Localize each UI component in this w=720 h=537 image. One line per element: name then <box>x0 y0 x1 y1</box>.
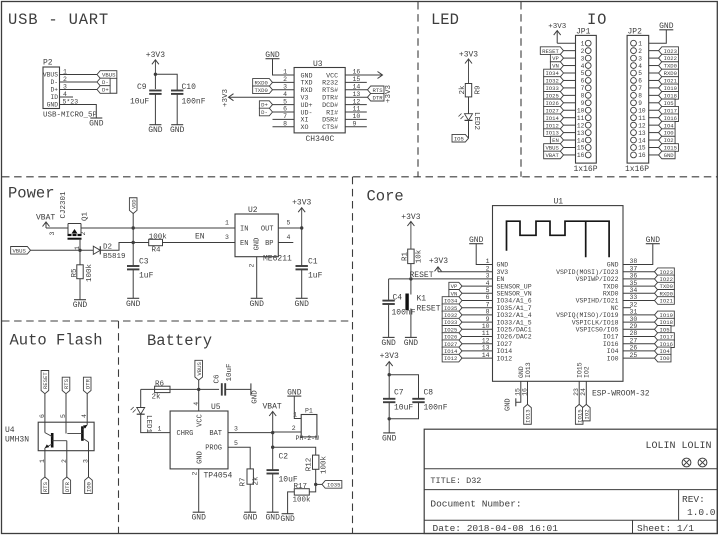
svg-text:IO5: IO5 <box>454 135 464 142</box>
wire U1 right <box>623 300 655 302</box>
wire VDD node <box>132 214 134 243</box>
svg-text:Q1: Q1 <box>82 211 90 221</box>
svg-text:+3V3: +3V3 <box>146 51 165 60</box>
svg-text:11: 11 <box>638 115 646 122</box>
svg-text:IO34: IO34 <box>545 70 559 77</box>
svg-text:Power: Power <box>8 185 55 203</box>
svg-text:IO32/A1_4: IO32/A1_4 <box>497 312 532 319</box>
svg-text:REV:: REV: <box>682 494 705 505</box>
resistor R1 10k <box>408 249 414 264</box>
svg-text:2: 2 <box>80 231 87 235</box>
net tag IO18 at U1 <box>655 318 675 326</box>
svg-text:+3V3: +3V3 <box>429 257 448 266</box>
wire JP2 <box>649 139 659 141</box>
svg-text:Auto Flash: Auto Flash <box>10 332 103 350</box>
wire P2 pin4 ID stub <box>60 96 74 98</box>
net tag RXD0 at JP2 <box>659 69 679 77</box>
wire U4 pin5 <box>65 394 67 434</box>
section divider USB-UART/LED <box>417 2 419 177</box>
wire C6 to GND <box>225 388 251 390</box>
net tag IO22 at JP2 <box>659 54 679 62</box>
svg-text:IO4: IO4 <box>664 122 675 129</box>
wire U3 right stub <box>345 126 367 128</box>
svg-text:GND: GND <box>252 390 260 404</box>
resistor R6 2k <box>155 386 170 392</box>
net tag IO33 at U1 <box>442 318 462 326</box>
wire JP2 <box>649 72 659 74</box>
wire JP1 <box>564 87 576 89</box>
wire U1 right <box>623 328 655 330</box>
diode D2 B5819 <box>93 246 100 254</box>
svg-text:IO35/A1_7: IO35/A1_7 <box>497 305 532 312</box>
wire VBUS to D2 <box>31 249 94 251</box>
svg-text:IO21: IO21 <box>660 298 674 305</box>
net tag IO2 at U1 pin24 <box>583 404 591 420</box>
wires U4 bottom pins <box>44 451 46 477</box>
svg-text:D+: D+ <box>102 87 109 94</box>
net tag IO34 at JP1 <box>544 69 564 77</box>
svg-text:TP4054: TP4054 <box>204 472 233 481</box>
net tag IO35 <box>316 483 322 485</box>
svg-text:+3V3: +3V3 <box>385 84 393 103</box>
svg-text:D-: D- <box>261 109 268 116</box>
power +3V3 left arrow at U3 V3 <box>229 96 295 98</box>
wire U3 pin16 VCC <box>345 74 382 76</box>
svg-text:RXD0: RXD0 <box>254 80 268 87</box>
capacitor C2 10uF <box>272 447 274 470</box>
svg-text:RESET: RESET <box>417 305 441 314</box>
wire P1 pin1 <box>294 396 301 418</box>
net tag IO27 at U1 <box>442 340 462 348</box>
section divider horizontal top <box>2 176 717 178</box>
svg-text:1x16P: 1x16P <box>625 165 649 174</box>
junction VBAT BAT <box>271 431 274 434</box>
wire junction to R17 <box>309 484 315 492</box>
wire U1 right <box>623 271 655 273</box>
net tag VBUS power input <box>11 247 31 255</box>
svg-text:5: 5 <box>234 440 238 447</box>
svg-text:IO13: IO13 <box>545 130 558 137</box>
net tag RXD0 at U3 TXD <box>253 79 273 87</box>
net tag D- at P2 <box>97 78 110 86</box>
net tag TXD0 at U3 RXD <box>253 86 273 94</box>
wire U1 right <box>623 357 655 359</box>
wire JP2 <box>649 154 659 156</box>
power +3V3 right arrow at U3 VCC <box>378 72 383 79</box>
wire U4 pin1 <box>44 448 46 451</box>
svg-text:5: 5 <box>638 70 642 77</box>
svg-text:VBAT: VBAT <box>263 403 282 412</box>
net tag VN at U1 <box>449 290 462 298</box>
junction VDD EN wire <box>132 241 135 244</box>
svg-text:PROG: PROG <box>205 445 222 453</box>
svg-text:+3V3: +3V3 <box>401 213 420 222</box>
svg-text:6: 6 <box>581 78 585 85</box>
power +3V3 at C7 <box>388 362 390 375</box>
wire U4 pin3 <box>88 442 90 451</box>
svg-text:GND: GND <box>404 339 419 348</box>
wire U3 pin8 XO stub <box>273 126 295 128</box>
net tag IO23 at U1 <box>655 268 675 276</box>
svg-text:RXD0: RXD0 <box>664 70 678 77</box>
svg-text:ESP-WROOM-32: ESP-WROOM-32 <box>592 390 650 399</box>
svg-text:16: 16 <box>577 152 585 159</box>
svg-text:GND: GND <box>148 126 163 135</box>
net tag IO21 at JP2 <box>659 77 679 85</box>
capacitor C3 1uF <box>132 243 134 267</box>
svg-text:IO32: IO32 <box>545 78 558 85</box>
svg-text:IO27: IO27 <box>497 341 513 348</box>
svg-text:VSPICLK/IO18: VSPICLK/IO18 <box>572 319 619 326</box>
svg-text:13: 13 <box>638 130 646 137</box>
svg-text:C2: C2 <box>279 453 289 462</box>
svg-text:IO35: IO35 <box>327 482 340 489</box>
net tag VN at JP1 <box>550 62 563 70</box>
wire U3 pin2 <box>273 81 295 83</box>
svg-text:IO22: IO22 <box>664 55 677 62</box>
wire U3 pin7 XI stub <box>273 118 295 120</box>
svg-text:EN: EN <box>497 276 505 283</box>
svg-text:6: 6 <box>39 414 46 418</box>
bus outline at P2 tags <box>110 78 117 93</box>
svg-text:IO18: IO18 <box>664 92 677 99</box>
junction C7 bottom <box>388 417 391 420</box>
wire U5 GND pin2 <box>198 469 200 512</box>
svg-text:1.0.0: 1.0.0 <box>687 507 716 518</box>
wire P2 pin3 D+ <box>60 89 98 91</box>
svg-text:IO0: IO0 <box>664 130 675 137</box>
svg-text:LED: LED <box>431 11 459 29</box>
svg-text:XO: XO <box>301 124 309 132</box>
svg-text:GND: GND <box>47 102 59 109</box>
svg-text:100k: 100k <box>293 497 312 505</box>
wire R9 to LED2 <box>468 97 470 114</box>
net tag IO12 at JP1 <box>544 121 564 129</box>
wire P2 pin1 VBUS <box>60 74 98 76</box>
wire U1 pin16 <box>527 381 529 404</box>
wire JP1 <box>564 117 576 119</box>
wire to R12 <box>273 447 316 455</box>
svg-text:13: 13 <box>577 130 585 137</box>
net tag D+ at P2 <box>97 86 110 94</box>
section divider LED/IO <box>520 2 522 177</box>
svg-text:2: 2 <box>486 265 490 272</box>
wire Q1 gate to VBUS node <box>79 239 81 251</box>
svg-text:VBUS: VBUS <box>545 145 559 152</box>
net tag TXD0 at U1 <box>655 282 675 290</box>
wire U1 left <box>462 336 493 338</box>
net tag IO17 at U1 <box>655 333 675 341</box>
svg-text:IO0: IO0 <box>607 355 619 362</box>
svg-text:GND: GND <box>294 300 309 309</box>
svg-text:IO: IO <box>587 11 607 29</box>
net tag IO17 at JP2 <box>659 106 679 114</box>
wire U5 BAT pin3 <box>228 432 273 434</box>
svg-text:VSPID(MOSI)/IO23: VSPID(MOSI)/IO23 <box>556 269 619 276</box>
resistor R4 100k <box>149 239 163 245</box>
wire JP1 <box>564 65 576 67</box>
ground U5 <box>193 511 205 513</box>
svg-text:USB-MICRO_5P: USB-MICRO_5P <box>43 112 98 120</box>
svg-text:1: 1 <box>638 40 642 47</box>
wire LED1 to U5 CHRG <box>141 414 170 432</box>
svg-text:Battery: Battery <box>147 332 212 350</box>
junction C2 R12 <box>271 446 274 449</box>
svg-text:C1: C1 <box>308 258 318 267</box>
svg-text:GND: GND <box>254 238 262 251</box>
ground C4 <box>383 336 395 338</box>
wire JP2 <box>649 132 659 134</box>
wire Q1 drain to VDD node <box>81 227 133 229</box>
net tag IO26 at JP1 <box>544 99 564 107</box>
svg-text:10: 10 <box>577 107 585 114</box>
svg-text:LOLIN LOLIN: LOLIN LOLIN <box>645 441 711 452</box>
svg-text:C8: C8 <box>424 389 434 398</box>
svg-text:9: 9 <box>638 100 642 107</box>
wire U1 pin15 GND rotated <box>516 381 521 402</box>
svg-text:7: 7 <box>638 85 642 92</box>
svg-text:Sheet: 1/1: Sheet: 1/1 <box>637 523 694 534</box>
net tag EN at JP1 <box>550 136 563 144</box>
wire JP2 <box>649 102 659 104</box>
svg-text:IO15: IO15 <box>577 362 584 378</box>
svg-text:RXD0: RXD0 <box>603 291 619 298</box>
wire VBAT down <box>272 433 274 448</box>
svg-text:GND: GND <box>191 514 206 523</box>
svg-text:C7: C7 <box>394 389 404 398</box>
svg-text:GND: GND <box>280 515 295 524</box>
wire P2 pin5 GND <box>60 105 97 119</box>
svg-text:IO33/A1_5: IO33/A1_5 <box>497 319 532 326</box>
wire U4 pin2 base <box>66 441 68 451</box>
svg-text:10: 10 <box>638 107 646 114</box>
net tag IO35 at U1 <box>442 304 462 312</box>
ground K1 <box>405 336 417 338</box>
svg-text:IO27: IO27 <box>545 107 558 114</box>
net tag IO4 at U1 <box>655 347 671 355</box>
svg-text:3V3: 3V3 <box>497 269 509 276</box>
resistor R7 2k <box>247 469 253 484</box>
net tag IO34 at U1 <box>442 297 462 305</box>
wire U1 left <box>462 314 493 316</box>
svg-text:2: 2 <box>192 471 199 475</box>
wire U4 pin6 <box>44 394 46 433</box>
ground C2 <box>267 511 279 513</box>
net tag IO26 at U1 <box>442 333 462 341</box>
svg-text:ID: ID <box>50 94 58 101</box>
svg-text:IN: IN <box>240 225 248 233</box>
wire JP2 <box>649 65 659 67</box>
wire JP2 <box>649 117 659 119</box>
svg-text:1x16P: 1x16P <box>574 165 598 174</box>
wire R6 to LED1 <box>140 389 142 407</box>
svg-text:2: 2 <box>292 425 296 432</box>
net tag D- at U3 UD- <box>259 108 272 116</box>
resistor R12 100k <box>313 455 319 469</box>
wire P1 pin2 <box>273 431 302 433</box>
svg-text:3: 3 <box>486 273 490 280</box>
wire U3 pin14 <box>345 89 367 91</box>
wire JP2 <box>649 124 659 126</box>
resistor R17 100k <box>294 489 309 495</box>
svg-text:5: 5 <box>60 414 67 418</box>
junction VDD top wire <box>132 226 135 229</box>
net tag IO21 at U1 <box>655 297 675 305</box>
power +3V3 at R1 <box>410 222 412 250</box>
svg-text:P1: P1 <box>305 408 313 415</box>
switch K1 RESET <box>410 279 412 295</box>
svg-text:2: 2 <box>638 48 642 55</box>
svg-text:IO12: IO12 <box>545 122 558 129</box>
svg-text:D-: D- <box>102 79 109 86</box>
ground R5 <box>74 299 86 301</box>
svg-text:IO12: IO12 <box>497 355 513 362</box>
net tag IO23 at JP2 <box>659 47 679 55</box>
svg-text:IO0: IO0 <box>660 355 671 362</box>
net tag VBUS vertical at battery <box>195 360 203 380</box>
wire U1 pin24 <box>585 381 587 404</box>
wire JP1 <box>564 102 576 104</box>
svg-text:IO0: IO0 <box>86 481 93 492</box>
svg-text:Document Number:: Document Number: <box>430 499 521 510</box>
net tag IO25 at JP1 <box>544 92 564 100</box>
wire U1 right <box>623 350 655 352</box>
svg-text:3: 3 <box>225 234 229 241</box>
svg-text:R6: R6 <box>155 381 165 389</box>
section divider Power bottom <box>2 320 353 322</box>
svg-text:4: 4 <box>193 402 200 406</box>
svg-text:GND: GND <box>197 451 205 464</box>
title block frame <box>424 429 717 533</box>
svg-text:OUT: OUT <box>261 225 274 233</box>
ground U2 <box>251 297 263 299</box>
svg-text:GND: GND <box>243 514 258 523</box>
junction C7 top <box>388 373 391 376</box>
resistor R9 2k <box>465 84 471 97</box>
wire U3 pin3 <box>273 89 295 91</box>
svg-text:CH340C: CH340C <box>306 135 335 144</box>
ground C9 <box>149 124 161 126</box>
wire U3 right stub <box>345 111 367 113</box>
wire R7 to GND <box>249 484 251 512</box>
svg-text:RESET: RESET <box>42 372 49 389</box>
wire VDD to U2 IN <box>133 227 235 229</box>
wire U1 left <box>462 343 493 345</box>
svg-text:RTS: RTS <box>373 87 384 94</box>
svg-text:2: 2 <box>249 263 256 267</box>
svg-text:U4: U4 <box>5 426 15 435</box>
wire VBAT to Q1 <box>46 227 68 229</box>
svg-text:5: 5 <box>287 220 291 227</box>
net tag GND at JP2 <box>659 151 675 159</box>
net tag RTS at U3 RTS# <box>368 86 384 94</box>
svg-text:VSPIHD/IO21: VSPIHD/IO21 <box>576 298 619 305</box>
net tag IO32 at U1 <box>442 311 462 319</box>
net tag IO27 at JP1 <box>544 106 564 114</box>
svg-text:IO26: IO26 <box>545 100 558 107</box>
svg-text:C6: C6 <box>214 374 222 384</box>
net tag IO4 at JP2 <box>659 121 675 129</box>
svg-text:+3V3: +3V3 <box>548 23 567 31</box>
svg-text:B5819: B5819 <box>103 253 126 261</box>
svg-text:3: 3 <box>49 231 56 235</box>
svg-text:C3: C3 <box>139 258 149 267</box>
wire D2 to EN node <box>100 243 133 251</box>
svg-text:15: 15 <box>577 145 585 152</box>
wire JP2 <box>649 57 659 59</box>
svg-text:1: 1 <box>486 258 490 265</box>
wire JP1 <box>564 147 576 149</box>
svg-text:100k: 100k <box>321 456 329 475</box>
svg-text:VP: VP <box>552 55 559 62</box>
svg-text:100nF: 100nF <box>182 98 206 107</box>
ground P2 <box>90 117 102 119</box>
net tag VP at U1 <box>449 282 462 290</box>
net tag RTS at U4 pin1 <box>41 477 49 493</box>
net tag IO18 at JP2 <box>659 92 679 100</box>
svg-text:CHRG: CHRG <box>177 430 194 438</box>
wire U1 left <box>462 321 493 323</box>
svg-text:RTS: RTS <box>63 378 70 389</box>
svg-text:+3V3: +3V3 <box>222 88 230 107</box>
svg-text:IO17: IO17 <box>603 334 619 341</box>
wire U1 left <box>462 357 493 359</box>
net tag IO32 at JP1 <box>544 77 564 85</box>
svg-text:4: 4 <box>638 63 642 70</box>
svg-text:2k: 2k <box>459 85 467 95</box>
wire JP1 <box>564 154 576 156</box>
wire U1 pin1 GND <box>476 244 492 265</box>
wire JP1 <box>564 57 576 59</box>
svg-text:TXD0: TXD0 <box>603 283 619 290</box>
net tag RESET at U4 pin6 <box>41 371 49 394</box>
svg-text:GND: GND <box>664 152 675 159</box>
svg-text:3: 3 <box>83 459 90 463</box>
svg-text:IO2: IO2 <box>584 366 591 378</box>
svg-text:NC: NC <box>611 305 619 312</box>
net tag DTR at U4 pin4 <box>83 377 91 393</box>
wire C7/C8 bottom <box>388 402 390 433</box>
wire JP1 <box>564 50 576 52</box>
wire JP1 <box>564 124 576 126</box>
net tag IO19 at JP2 <box>659 84 679 92</box>
net tag IO5 at JP2 <box>659 99 675 107</box>
net tag DTR at U3 DTR# <box>368 93 384 101</box>
wire JP2 <box>649 109 659 111</box>
capacitor C4 100nF <box>388 279 390 301</box>
ground C7 C8 <box>383 432 395 434</box>
wire U1 left <box>462 350 493 352</box>
ground C3 <box>127 297 139 299</box>
wire JP1 <box>564 139 576 141</box>
svg-text:+3V3: +3V3 <box>459 51 478 60</box>
wire R4 to U2 EN <box>163 242 236 244</box>
svg-text:1: 1 <box>225 220 229 227</box>
svg-text:16: 16 <box>638 152 646 159</box>
svg-text:VBUS: VBUS <box>12 247 26 254</box>
wire U1 right <box>623 278 655 280</box>
svg-text:IO2: IO2 <box>583 409 590 419</box>
wire U1 right <box>623 314 655 316</box>
junction VBUS C6 <box>197 388 200 391</box>
svg-text:R4: R4 <box>152 247 162 255</box>
svg-text:TXD0: TXD0 <box>664 63 678 70</box>
svg-text:USB - UART: USB - UART <box>8 11 109 29</box>
junction U2 OUT <box>300 226 303 229</box>
junction C9/C10 <box>154 73 157 76</box>
net tag IO16 at U1 <box>655 340 675 348</box>
wire JP2 <box>649 50 659 52</box>
